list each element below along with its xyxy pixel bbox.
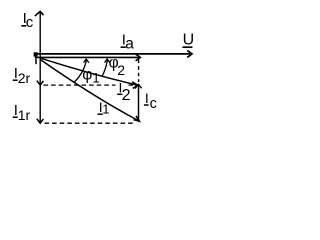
vector I1 (uncompensated current) bbox=[41, 60, 140, 121]
label Ia bbox=[121, 31, 135, 52]
label phi1 bbox=[82, 67, 100, 86]
svg-text:1r: 1r bbox=[18, 107, 31, 123]
U axis (horizontal) bbox=[34, 52, 190, 56]
vector I2 (compensated current) bbox=[41, 58, 138, 85]
svg-text:I: I bbox=[145, 90, 149, 106]
vertical axis (Ic direction) bbox=[39, 12, 41, 123]
label I2 (middle, on dashed line) bbox=[117, 79, 130, 104]
dashed horizontal I1r projection line bbox=[45, 122, 134, 124]
svg-text:c: c bbox=[26, 14, 34, 31]
arrowhead I2 tip bbox=[132, 82, 137, 89]
dashed horizontal I2r projection line bbox=[44, 84, 135, 86]
label Ic (right) bbox=[144, 90, 157, 112]
svg-text:2: 2 bbox=[117, 62, 125, 78]
label I1r (left) bbox=[13, 102, 31, 123]
arrowhead down, I1r at axis bottom bbox=[37, 119, 44, 124]
svg-text:U: U bbox=[183, 32, 195, 49]
svg-text:a: a bbox=[125, 36, 134, 53]
svg-text:2r: 2r bbox=[18, 70, 31, 86]
svg-text:1: 1 bbox=[92, 71, 100, 86]
arrowhead up, Ic right bbox=[135, 84, 142, 88]
vector Ia (active current, horizontal) bbox=[35, 56, 139, 58]
arrowhead up, vertical axis top bbox=[35, 11, 44, 16]
vector Ic (capacitor current, right vertical) bbox=[138, 85, 140, 122]
arrowhead right, U axis bbox=[187, 50, 192, 57]
dashed vertical projection (Ia tip to I2 tip) bbox=[138, 60, 140, 83]
svg-text:2: 2 bbox=[122, 87, 131, 104]
arrowhead right, Ia bbox=[136, 54, 141, 61]
label U (top right) bbox=[182, 32, 194, 49]
arrowhead I1 tip bbox=[134, 116, 140, 121]
label phi2 bbox=[109, 55, 126, 79]
label I2r (left) bbox=[13, 65, 31, 86]
angle arc phi1 (U to I1) with arrow bbox=[75, 59, 89, 82]
svg-text:1: 1 bbox=[102, 102, 109, 117]
svg-text:c: c bbox=[150, 96, 157, 112]
origin tick (small mark below axis start) bbox=[35, 58, 37, 64]
arrowhead down, I2r on axis bbox=[37, 81, 44, 86]
label Ic (top left) bbox=[21, 10, 34, 31]
label I1 (below I1 vector) bbox=[98, 99, 110, 116]
svg-text:φ: φ bbox=[82, 67, 92, 84]
angle arc phi2 (U to I2) with arrow bbox=[102, 59, 110, 77]
